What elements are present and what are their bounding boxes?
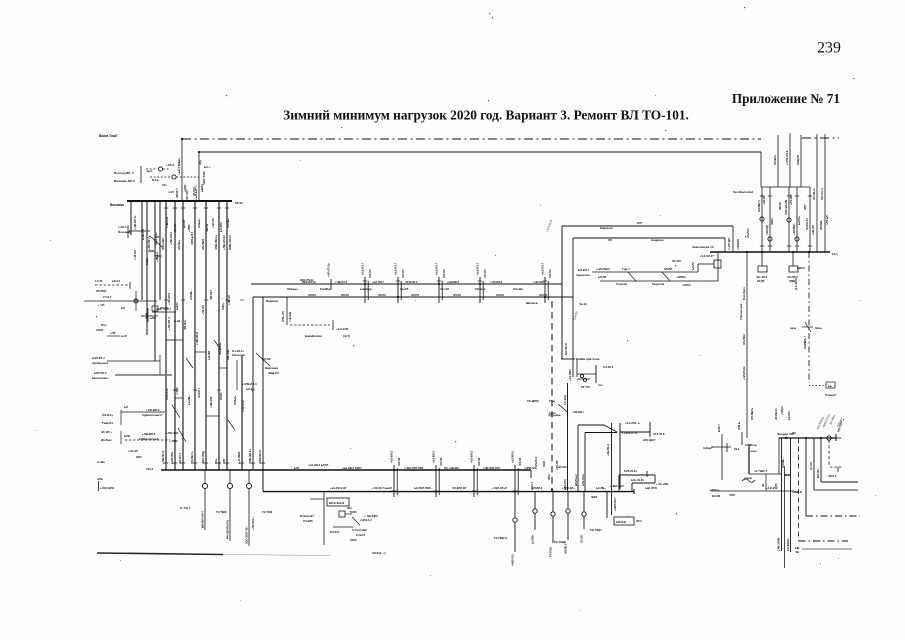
wire xyxy=(765,474,767,491)
svg-text:ГВ ТЗЦ2: ГВ ТЗЦ2 xyxy=(554,540,566,544)
breaker circle xyxy=(227,483,232,488)
wire feeder long xyxy=(226,201,228,470)
svg-text:ЧЛ-ЛЗ.7: ЧЛ-ЛЗ.7 xyxy=(178,452,182,464)
wire stub xyxy=(195,351,206,353)
wire xyxy=(577,378,590,380)
svg-text:ГЗ ТВФ: ГЗ ТВФ xyxy=(216,510,227,514)
wire incoming feeder long xyxy=(824,134,826,252)
svg-text:ЗЛ-ЛЗ+х: ЗЛ-ЛЗ+х xyxy=(812,188,816,200)
svg-text:ЗЛ-ЛВЛ: ЗЛ-ЛВЛ xyxy=(201,239,205,250)
tick xyxy=(217,462,221,464)
svg-text:+ЧЗЛ-ЛЛ7 ЛВЗ: +ЧЗЛ-ЛЛ7 ЛВЗ xyxy=(404,466,424,470)
svg-text:ЬЗ-ЛВ+: ЬЗ-ЛВ+ xyxy=(596,486,606,490)
svg-text:2.2х2.2: 2.2х2.2 xyxy=(356,533,365,537)
wire incoming feeder xyxy=(800,135,802,187)
wire drop right B xyxy=(760,152,762,187)
wire drop xyxy=(577,425,579,492)
tick xyxy=(181,462,185,464)
tick xyxy=(129,282,131,289)
svg-text:ЛЗ-ЗЛ: ЛЗ-ЗЛ xyxy=(580,535,584,543)
svg-text:+ЧВ-ЗЛ2 ЛЛ?: +ЧВ-ЗЛ2 ЛЛ? xyxy=(483,466,501,470)
breaker circle xyxy=(134,299,138,303)
svg-text:ЧЛЗ-ЗЛ+ЛВ: ЧЛЗ-ЗЛ+ЛВ xyxy=(784,200,788,215)
svg-text:Чез-Вюлзлmd: Чез-Вюлзлmd xyxy=(733,190,753,194)
tick xyxy=(795,245,799,247)
svg-text:ТЗ(-2: ТЗ(-2 xyxy=(146,467,154,471)
bus left 110kV Вясовая xyxy=(127,200,232,202)
svg-text:ЬЗ(2х: ЬЗ(2х xyxy=(175,302,179,310)
svg-text:67/40: 67/40 xyxy=(235,201,243,205)
tick xyxy=(392,469,396,471)
svg-text:НО( (В(2?: НО( (В(2? xyxy=(643,438,656,442)
svg-text:ТэжеЛ.2: ТэжеЛ.2 xyxy=(102,421,113,425)
tick xyxy=(193,462,197,464)
wire xyxy=(585,432,617,434)
box Темени xyxy=(826,382,835,388)
wire feeder long xyxy=(205,201,207,470)
box ЧктТЭЦ xyxy=(758,266,767,272)
svg-text:+ЧСЗ-ВЛ4: +ЧСЗ-ВЛ4 xyxy=(100,486,115,490)
svg-text:ЬЛ-0.5: ЬЛ-0.5 xyxy=(112,279,121,283)
svg-text:+ЧЛ(2: +ЧЛ(2 xyxy=(175,387,179,395)
svg-text:+ЛЗ-ЬЛ: +ЛЗ-ЬЛ xyxy=(825,215,829,225)
tick xyxy=(760,195,764,197)
svg-text:ЬЛ-ЛВ: ЬЛ-ЛВ xyxy=(207,351,211,360)
svg-text:Сабйв-пряточна: Сабйв-пряточна xyxy=(576,357,600,361)
svg-text:ЬЛ.40: ЬЛ.40 xyxy=(246,387,254,391)
wire dashed outage ВЛ ТО-101 xyxy=(551,301,553,490)
tick xyxy=(363,296,367,298)
wire xyxy=(98,481,100,491)
tick xyxy=(193,207,197,209)
svg-text:+ЛВ-ЗЛ.2х: +ЛВ-ЗЛ.2х xyxy=(222,235,226,250)
wire xyxy=(150,236,162,247)
wire dash-dot right xyxy=(806,515,860,517)
svg-text:+ЬЗ-ЛЗ.7: +ЬЗ-ЛЗ.7 xyxy=(476,262,480,275)
svg-text:(30: (30 xyxy=(792,431,796,435)
svg-text:наза: наза xyxy=(790,327,796,330)
svg-text:+ЬЗ-ЛЗ.7: +ЬЗ-ЛЗ.7 xyxy=(435,262,439,275)
wire feeder xyxy=(159,201,161,300)
wire tap row2 xyxy=(84,300,157,302)
svg-text:ЗЛ(2х: ЗЛ(2х xyxy=(145,257,149,265)
tick xyxy=(193,389,197,391)
svg-text:ЬЛЗ-ТЛ.4: ЬЛЗ-ТЛ.4 xyxy=(94,371,107,375)
svg-text:+ЧВ-ЗЛ.7+: +ЧВ-ЗЛ.7+ xyxy=(133,215,137,230)
wire xyxy=(286,297,288,325)
wire xyxy=(761,252,763,266)
wire xyxy=(204,470,206,483)
wire T xyxy=(561,358,575,360)
svg-text:ЗЛЛ-ЬЛ.7: ЗЛЛ-ЬЛ.7 xyxy=(190,231,194,245)
wire feeder long xyxy=(165,201,167,470)
svg-text:ЧЛ-ЗЛЛ ЗЛ: ЧЛ-ЗЛЛ ЗЛ xyxy=(452,486,466,490)
wire xyxy=(620,431,650,433)
svg-text:Всасов,ВЛ_7: Всасов,ВЛ_7 xyxy=(114,171,134,175)
tick xyxy=(240,299,244,301)
wire xyxy=(120,410,122,425)
svg-text:Тнд-?: Тнд-? xyxy=(622,267,630,271)
tick xyxy=(434,490,438,492)
tick xyxy=(145,313,147,319)
svg-text:ТнвЗЛдн: ТнвЗЛдн xyxy=(320,287,332,291)
wire xyxy=(441,281,443,300)
svg-text:Ь-Л-ЛВЛ: Ь-Л-ЛВЛ xyxy=(237,452,241,464)
svg-text:ЗЛ-ЛЗ: ЗЛ-ЛЗ xyxy=(341,293,349,297)
svg-text:(2.3-12.л?: (2.3-12.л? xyxy=(794,277,798,290)
svg-text:Что:ЗЛ: Что:ЗЛ xyxy=(440,287,449,291)
svg-text:+ЧЛ(2: +ЧЛ(2 xyxy=(183,184,187,192)
wire feeder long xyxy=(174,201,176,470)
svg-text:ЗЛ-ЛЗ: ЗЛ-ЛЗ xyxy=(411,293,419,297)
wire xyxy=(761,187,763,252)
svg-text:ЗЛ-ЛЗ.2+: ЗЛ-ЛЗ.2+ xyxy=(165,388,169,400)
svg-text:+ЧВ-ЛЗ.2: +ЧВ-ЛЗ.2 xyxy=(335,280,348,284)
wire drop 3 xyxy=(805,438,807,516)
svg-text:Евразия+: Евразия+ xyxy=(600,226,614,230)
scan specks extra xyxy=(820,563,821,564)
tick xyxy=(808,195,812,197)
svg-text:+ЧЛ-ЗЛ+: +ЧЛ-ЗЛ+ xyxy=(533,280,545,284)
wire xyxy=(514,523,516,552)
breaker circle xyxy=(551,512,555,516)
svg-text:1/3-Втор: 1/3-Втор xyxy=(745,443,757,447)
svg-text:ЧЛ-ЛЗ: ЧЛ-ЛЗ xyxy=(397,457,401,466)
svg-text:1АВ-14ЛМ: 1АВ-14ЛМ xyxy=(777,537,781,551)
wire xyxy=(618,475,620,492)
svg-text:ЦП В-Знач2: ЦП В-Знач2 xyxy=(329,501,345,505)
wire feeder xyxy=(154,201,156,361)
svg-text:+ЛЗ-ТЛ.4: +ЛЗ-ТЛ.4 xyxy=(167,317,171,330)
wire xyxy=(741,432,743,445)
wire xyxy=(576,359,578,377)
svg-text:+ЧВЛ-ЛЗ.2: +ЧВЛ-ЛЗ.2 xyxy=(610,484,624,488)
svg-text:ЛяЗнце+: ЛяЗнце+ xyxy=(287,287,299,291)
tick xyxy=(164,462,168,464)
svg-text:Ъ-ЖЬ: Ъ-ЖЬ xyxy=(97,460,105,464)
wire xyxy=(717,252,719,281)
svg-text:+ЛЛВ: +ЛЛВ xyxy=(170,439,178,443)
svg-text:ЗЛ: ЗЛ xyxy=(761,483,765,487)
wire feeder xyxy=(241,355,243,470)
svg-text:2.5-В25: 2.5-В25 xyxy=(303,519,313,523)
svg-text:ЬЛ-ЛЗ: ЬЛ-ЛЗ xyxy=(262,357,271,361)
breaker circle xyxy=(202,483,207,488)
tick xyxy=(392,490,396,492)
svg-text:Ча-Зо: Ча-Зо xyxy=(579,302,587,306)
wire xyxy=(567,514,569,540)
wire through bus xyxy=(611,423,613,515)
svg-text:+ЧЛ/2.1.2: +ЧЛ/2.1.2 xyxy=(360,518,372,522)
wire xyxy=(600,280,708,282)
tick xyxy=(787,245,791,247)
wire xyxy=(552,517,554,543)
svg-text:ПХ ЗЛ: ПХ ЗЛ xyxy=(160,306,168,310)
svg-text:ВткЛы1: ВткЛы1 xyxy=(101,438,112,442)
svg-text:ЬЗ-ЛЛ+: ЬЗ-ЛЛ+ xyxy=(787,410,791,420)
svg-text:ЗЛ-ЛЗч: ЗЛ-ЛЗч xyxy=(746,228,750,238)
svg-text:+ЗЛ-ЛЗ: +ЗЛ-ЛЗ xyxy=(762,195,766,205)
svg-text:+ЧнЗЛя: +ЧнЗЛя xyxy=(288,311,292,322)
wire dash-dot feeder xyxy=(808,252,810,383)
disconnector circle 2 xyxy=(172,175,176,179)
svg-text:ЖЗО: ЖЗО xyxy=(590,495,597,499)
wire right xyxy=(814,489,858,491)
bus end tick xyxy=(835,434,837,441)
wire xyxy=(396,468,398,495)
wire xyxy=(140,166,142,183)
wire drop 5 xyxy=(820,438,822,482)
svg-text:+ЧВ-ЛЛ: +ЧВ-ЛЛ xyxy=(811,225,815,235)
wire stair drop lower xyxy=(724,238,726,252)
svg-text:ЛЗО-ЗЛЛ ЧЗ+: ЛЗО-ЗЛЛ ЧЗ+ xyxy=(245,526,249,544)
svg-text:Андроне: Андроне xyxy=(651,238,664,242)
breaker circle xyxy=(246,483,251,488)
wire xyxy=(547,281,549,300)
bus middle upper xyxy=(251,283,562,285)
wire xyxy=(256,353,270,366)
svg-text:239: 239 xyxy=(817,40,841,57)
wire feeder long xyxy=(194,201,196,470)
wire xyxy=(482,281,484,300)
svg-text:+ ЧЛ: + ЧЛ xyxy=(98,303,104,307)
box xyxy=(714,260,721,268)
wire xyxy=(567,383,569,492)
svg-text:ЧО.В: ЧО.В xyxy=(784,473,791,477)
svg-text:Змэн: Змэн xyxy=(815,326,822,330)
wire xyxy=(438,277,440,303)
svg-text:ТЧд: ТЧд xyxy=(549,399,555,403)
svg-text:6,3-35,2: 6,3-35,2 xyxy=(603,365,614,369)
svg-text:ЗЛ-ЛВ+: ЗЛ-ЛВ+ xyxy=(781,458,785,468)
svg-text:ЗЛВ-ЛВ.2+: ЗЛВ-ЛВ.2+ xyxy=(214,235,218,250)
svg-text:6.5-ЗЛ(х: 6.5-ЗЛ(х xyxy=(563,394,567,405)
svg-text:Вартовка: Вартовка xyxy=(265,366,278,370)
tick xyxy=(513,490,517,492)
svg-text:Зч-2Л: Зч-2Л xyxy=(809,462,813,470)
svg-text:+ЧЛ-ЛЛ.2: +ЧЛ-ЛЛ.2 xyxy=(490,280,503,284)
svg-text:+ЗЛЗ(2): +ЗЛЗ(2) xyxy=(765,225,769,235)
svg-text:ЬЛЗ-?: ЬЛЗ-? xyxy=(717,424,721,432)
wire xyxy=(146,168,157,170)
svg-text:ЗЛ-ЛЗ: ЗЛ-ЛЗ xyxy=(378,293,386,297)
svg-text:ЬЛ+-31.8х: ЬЛ+-31.8х xyxy=(631,478,644,482)
svg-text:+ЧЛ.7+: +ЧЛ.7+ xyxy=(118,225,128,229)
wire xyxy=(749,473,782,475)
wire xyxy=(788,187,790,252)
wire xyxy=(628,272,636,281)
wire xyxy=(332,320,334,330)
svg-text:+, Лягわれ2: +, Лягわれ2 xyxy=(364,514,378,518)
wire xyxy=(236,360,238,390)
svg-text:ЬЗЛ-ЛЛ+: ЬЗЛ-ЛЛ+ xyxy=(170,451,174,464)
wire xyxy=(631,483,633,492)
tick xyxy=(173,207,177,209)
svg-text:+ЧВЛ-Л.2: +ЧВЛ-Л.2 xyxy=(511,554,515,566)
bus middle lower xyxy=(253,296,573,298)
bus bottom-right Феврал xyxy=(779,437,836,439)
svg-text:ЧЛ-ЛЗ+: ЧЛ-ЛЗ+ xyxy=(183,319,187,330)
tick xyxy=(330,279,332,289)
svg-text:+ЛЛ-ЗЛ: +ЛЛ-ЗЛ xyxy=(211,218,215,228)
svg-text:ЬЗ-ЛЗЛ ЛЗЛ+: ЬЗ-ЛЗЛ ЛЗЛ+ xyxy=(414,486,432,490)
wire xyxy=(711,446,731,448)
tick xyxy=(787,195,791,197)
svg-text:С. Полтав2: С. Полтав2 xyxy=(352,528,367,532)
wire xyxy=(107,360,160,362)
wire right 2 xyxy=(821,481,858,483)
wire stair upper xyxy=(562,225,733,227)
svg-text:+ЧЗ-ЛЛ: +ЧЗ-ЛЛ xyxy=(555,460,559,470)
wire xyxy=(805,322,811,332)
tick xyxy=(543,296,547,298)
wire xyxy=(229,470,231,483)
wire xyxy=(172,405,180,418)
tick xyxy=(251,389,255,391)
svg-text:+ЬЗ-ВЛ.5: +ЬЗ-ВЛ.5 xyxy=(432,450,436,463)
specks (scan noise) xyxy=(489,13,490,14)
wire xyxy=(178,428,186,442)
svg-text:ВН+ВЛ+ЧЛ-?: ВН+ВЛ+ЧЛ-? xyxy=(201,511,205,528)
tick xyxy=(760,245,764,247)
svg-text:ЛЗ.): ЛЗ.) xyxy=(101,323,106,327)
svg-text:Тбилисская: Тбилисская xyxy=(739,303,743,320)
wire xyxy=(662,272,670,281)
svg-text:+ЬЗ-ВЛ.5: +ЬЗ-ВЛ.5 xyxy=(470,450,474,463)
svg-text:ЗЛ-ЛЗ.Зч: ЗЛ-ЛЗ.Зч xyxy=(805,218,809,230)
svg-text:ВткЛ2: ВткЛ2 xyxy=(712,494,721,498)
svg-text:+ЛЗ-ЛЗ.7+: +ЛЗ-ЛЗ.7+ xyxy=(147,235,151,250)
svg-text:+ЧЛ-ЗЛ.2: +ЧЛ-ЗЛ.2 xyxy=(167,293,171,305)
wire stub xyxy=(146,315,158,317)
wire xyxy=(632,482,655,484)
svg-text:+ЬЗ-ЛЗ.7: +ЬЗ-ЛЗ.7 xyxy=(394,262,398,275)
wire xyxy=(837,467,839,472)
svg-text:Кокчетав: Кокчетав xyxy=(232,353,245,357)
svg-text:Чугуевка: Чугуевка xyxy=(548,413,561,417)
svg-text:Ясновдд: Ясновдд xyxy=(118,230,130,234)
wire stub xyxy=(166,339,183,341)
wire xyxy=(364,277,366,303)
svg-text:+2.2-ЧЛ.2?: +2.2-ЧЛ.2? xyxy=(700,254,714,258)
wire xyxy=(367,281,369,300)
wire xyxy=(120,431,122,444)
svg-text:озол: озол xyxy=(750,449,757,453)
svg-text:ЬЗ-ЛВ+: ЬЗ-ЛВ+ xyxy=(187,395,191,405)
svg-text:Рн1-Зрнч: Рн1-Зрнч xyxy=(742,287,746,300)
wire feeder Тбилисская xyxy=(746,252,748,438)
breaker on bus xyxy=(827,436,831,440)
svg-text:Черкесск+: Черкесск+ xyxy=(576,273,591,277)
svg-text:+ЧВ-ЛЗ.2: +ЧВ-ЛЗ.2 xyxy=(195,332,199,345)
wire xyxy=(544,277,546,303)
wire stub xyxy=(649,422,651,437)
svg-text:+ЬЗ ЛЛ.7: +ЬЗ ЛЛ.7 xyxy=(372,280,384,284)
svg-text:ВЛ-ЛЗ+: ВЛ-ЛЗ+ xyxy=(816,468,820,478)
svg-text:Тюречné: Тюречné xyxy=(652,282,665,286)
breaker xyxy=(580,374,583,377)
wire step between bottom buses xyxy=(262,470,264,492)
wire feeder xyxy=(146,201,148,335)
tick xyxy=(217,207,221,209)
svg-text:ЗЛЛ-ЛЗ.2+: ЗЛЛ-ЛЗ.2+ xyxy=(258,449,262,464)
svg-text:Бакайсиясн: Бакайсиясн xyxy=(305,334,322,338)
svg-text:+ЛЛ/ЛЗ: +ЛЛ/ЛЗ xyxy=(676,275,686,279)
svg-text:ч.ЗЛ: ч.ЗЛ xyxy=(168,190,174,194)
svg-text:ЗЛ(2+: ЗЛ(2+ xyxy=(221,302,225,310)
svg-text:ЬчЛ: ЬчЛ xyxy=(121,334,127,338)
svg-text:+ЧЛ-ЗЛ: +ЧЛ-ЗЛ xyxy=(128,449,138,453)
svg-text:1,5-20: 1,5-20 xyxy=(95,279,103,283)
svg-text:4Л-1Л/ +: 4Л-1Л/ + xyxy=(101,430,113,434)
breaker circle xyxy=(768,237,772,241)
svg-text:ЛягЗкая: ЛягЗкая xyxy=(475,287,486,291)
svg-text:ЗЛ-ЛЗ.2: ЗЛ-ЛЗ.2 xyxy=(534,456,538,467)
svg-text:+ЛВ-ВЛ.З: +ЛВ-ВЛ.З xyxy=(142,432,156,436)
svg-text:Шёлков: Шёлков xyxy=(526,301,538,305)
svg-text:ЛЗ: ЛЗ xyxy=(774,483,778,487)
tick xyxy=(396,280,400,282)
svg-text:ЛЗ-ЗЛ+: ЛЗ-ЗЛ+ xyxy=(173,222,177,232)
svg-text:+ЛВ-ЗЛ.2: +ЛВ-ЗЛ.2 xyxy=(169,232,173,245)
svg-text:ЗЛ-ЬЛ+: ЗЛ-ЬЛ+ xyxy=(233,395,237,405)
svg-text:ЗЛВ-ЛВ.2+: ЗЛВ-ЛВ.2+ xyxy=(248,449,252,464)
svg-text:+2.3-ЛВ(?: +2.3-ЛВ(? xyxy=(568,368,572,381)
wire xyxy=(400,281,402,300)
wire feeder xyxy=(809,187,811,252)
slash xyxy=(214,340,221,350)
wire xyxy=(592,271,698,273)
tick xyxy=(768,195,772,197)
disconnector circle 1 xyxy=(158,167,162,171)
svg-text:ЗЛЗ-Ь: ЗЛЗ-Ь xyxy=(737,422,741,430)
box small xyxy=(152,306,158,311)
wire xyxy=(121,411,165,413)
svg-text:нЛв: нЛв xyxy=(97,477,103,481)
tick xyxy=(437,280,441,282)
svg-text:ЗЛ(2: ЗЛ(2 xyxy=(547,474,551,480)
svg-text:ЧЛ-ЛЗ: ЧЛ-ЛЗ xyxy=(477,457,481,466)
svg-text:УЗ-ДЛЯ: УЗ-ДЛЯ xyxy=(527,399,539,403)
svg-text:ЗЛ-ЛЗ+: ЗЛ-ЛЗ+ xyxy=(177,239,181,250)
svg-text:10-1: 10-1 xyxy=(832,252,838,256)
svg-text:ЗЛч: ЗЛч xyxy=(347,506,352,510)
svg-text:ЗЛ/ЗЛ-7: ЗЛ/ЗЛ-7 xyxy=(175,188,179,198)
wire xyxy=(163,168,170,170)
breaker circle xyxy=(795,237,799,241)
tick xyxy=(240,462,244,464)
svg-text:ВЛ-ЛЗ+(х: ВЛ-ЛЗ+(х xyxy=(574,474,578,486)
svg-text:ЬнвЗpng: ЬнвЗpng xyxy=(360,287,372,291)
wire stub xyxy=(206,415,219,417)
svg-text:Ячгд: Ячгд xyxy=(152,178,159,182)
wire feeder xyxy=(141,201,143,300)
svg-text:ЧВЛ-ТЗЛ+: ЧВЛ-ТЗЛ+ xyxy=(202,170,206,185)
bus bottom 1 xyxy=(161,469,531,471)
bus right 10-1 xyxy=(710,251,830,253)
wire xyxy=(517,468,519,495)
wire xyxy=(473,465,475,497)
wire stub xyxy=(175,397,183,399)
svg-text:+ЬЗ-ВЛ.5: +ЬЗ-ВЛ.5 xyxy=(511,450,515,463)
svg-text:+ЛЗ-ЛЛ: +ЛЗ-ЛЛ xyxy=(201,305,205,315)
svg-text:Калиновка+: Калиновка+ xyxy=(92,376,109,380)
wire drop 4 xyxy=(813,438,815,490)
svg-text:Ь/т+: Ь/т+ xyxy=(204,165,210,169)
tick xyxy=(173,389,177,391)
svg-text:ЛЛВ-ЗЛ.7х: ЛЛВ-ЗЛ.7х xyxy=(228,235,232,250)
wire incoming feeder xyxy=(789,133,791,187)
